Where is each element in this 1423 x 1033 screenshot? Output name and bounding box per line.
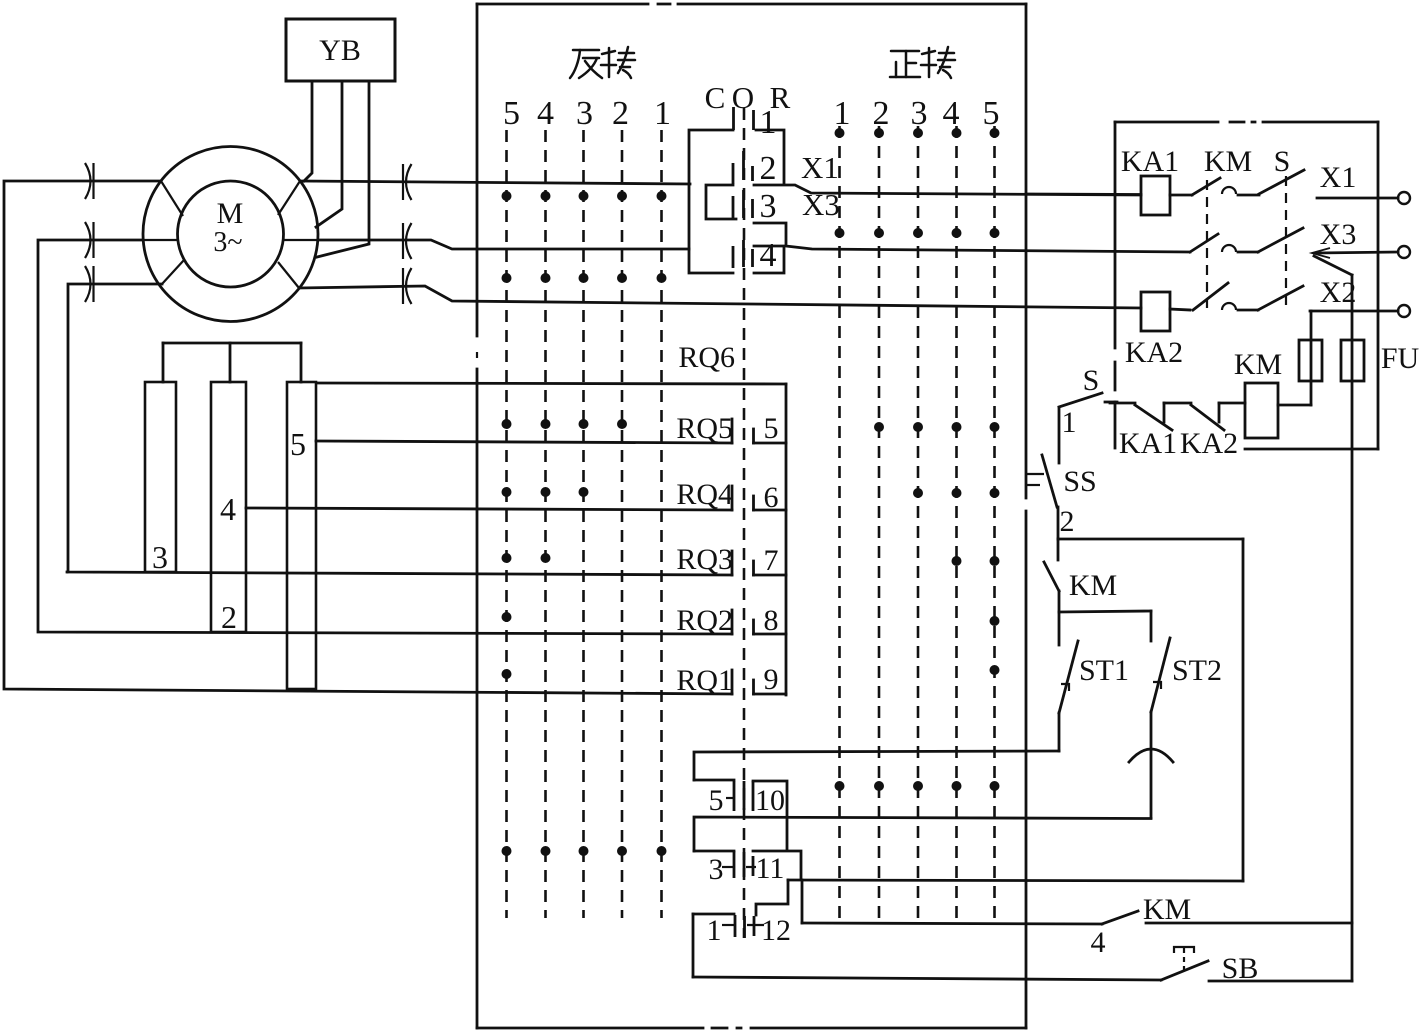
svg-text:5: 5	[764, 412, 779, 445]
svg-text:KA2: KA2	[1125, 336, 1183, 369]
svg-text:RQ1: RQ1	[676, 664, 733, 697]
svg-text:5: 5	[290, 426, 306, 462]
svg-text:5: 5	[503, 95, 520, 132]
svg-text:SS: SS	[1063, 465, 1096, 498]
svg-text:KM: KM	[1234, 348, 1282, 381]
svg-text:C: C	[705, 80, 726, 115]
svg-text:KA1: KA1	[1121, 145, 1179, 178]
svg-text:FU: FU	[1381, 342, 1420, 375]
svg-text:X2: X2	[1320, 276, 1357, 309]
svg-text:5: 5	[983, 95, 1000, 132]
svg-text:RQ2: RQ2	[676, 604, 733, 637]
svg-text:2: 2	[873, 95, 890, 132]
svg-text:3: 3	[760, 188, 777, 225]
svg-text:1: 1	[1062, 406, 1077, 439]
svg-text:2: 2	[612, 95, 629, 132]
svg-text:3: 3	[576, 95, 593, 132]
svg-text:2: 2	[1060, 505, 1075, 538]
svg-text:M: M	[217, 197, 244, 230]
svg-text:2: 2	[221, 599, 237, 635]
svg-text:3: 3	[911, 95, 928, 132]
svg-text:RQ6: RQ6	[678, 341, 735, 374]
svg-text:8: 8	[764, 604, 779, 637]
svg-text:6: 6	[764, 481, 779, 514]
svg-text:4: 4	[1091, 926, 1106, 959]
svg-text:9: 9	[764, 663, 779, 696]
svg-text:ST1: ST1	[1079, 654, 1129, 687]
svg-text:X3: X3	[802, 187, 840, 222]
svg-text:1: 1	[834, 95, 851, 132]
svg-text:KM: KM	[1069, 569, 1117, 602]
svg-text:4: 4	[537, 95, 554, 132]
svg-text:3~: 3~	[213, 227, 242, 258]
svg-text:RQ5: RQ5	[676, 412, 733, 445]
svg-text:3: 3	[709, 853, 724, 886]
svg-text:KM: KM	[1204, 145, 1252, 178]
svg-text:ST2: ST2	[1172, 654, 1222, 687]
svg-text:O: O	[732, 80, 754, 115]
svg-text:YB: YB	[319, 34, 361, 67]
svg-text:4: 4	[943, 95, 960, 132]
svg-text:X3: X3	[1320, 218, 1357, 251]
svg-text:1: 1	[760, 104, 777, 141]
svg-text:12: 12	[761, 914, 791, 947]
svg-text:KA2: KA2	[1180, 427, 1238, 460]
svg-text:7: 7	[764, 544, 779, 577]
svg-text:S: S	[1083, 364, 1100, 397]
svg-text:KA1: KA1	[1119, 427, 1177, 460]
svg-text:1: 1	[654, 95, 671, 132]
svg-text:11: 11	[756, 852, 785, 885]
svg-text:3: 3	[152, 539, 168, 575]
svg-text:RQ3: RQ3	[676, 543, 733, 576]
svg-text:X1: X1	[1320, 161, 1357, 194]
svg-text:2: 2	[760, 150, 777, 187]
svg-text:KM: KM	[1143, 893, 1191, 926]
svg-text:1: 1	[707, 914, 722, 947]
svg-text:RQ4: RQ4	[676, 478, 733, 511]
svg-text:5: 5	[709, 784, 724, 817]
svg-text:S: S	[1274, 145, 1291, 178]
svg-text:X1: X1	[801, 150, 839, 185]
svg-text:4: 4	[760, 237, 777, 274]
svg-text:10: 10	[755, 784, 785, 817]
svg-text:SB: SB	[1222, 952, 1259, 985]
svg-text:4: 4	[220, 491, 236, 527]
